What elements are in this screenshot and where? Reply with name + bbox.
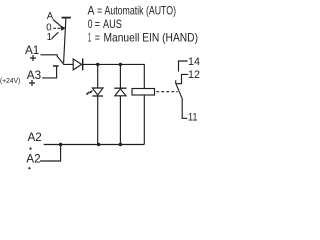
svg-text:1: 1: [47, 32, 52, 43]
svg-text:12: 12: [188, 69, 200, 81]
svg-text:A3: A3: [27, 69, 41, 82]
svg-text:A2: A2: [26, 152, 40, 165]
svg-text:A: A: [88, 4, 95, 18]
svg-text:(+24V): (+24V): [0, 76, 21, 85]
svg-text:Manuell EIN (HAND): Manuell EIN (HAND): [104, 30, 199, 44]
svg-text:1: 1: [88, 30, 91, 44]
svg-text:11: 11: [188, 112, 198, 124]
svg-text:=: =: [97, 4, 102, 18]
svg-text:A2: A2: [28, 131, 42, 144]
svg-text:A: A: [47, 11, 54, 22]
svg-text:14: 14: [188, 56, 200, 68]
svg-text:=: =: [95, 17, 100, 31]
svg-text:AUS: AUS: [103, 17, 122, 31]
svg-text:=: =: [95, 30, 100, 44]
svg-text:0: 0: [88, 17, 93, 31]
svg-text:Automatik (AUTO): Automatik (AUTO): [105, 4, 177, 18]
svg-text:A1: A1: [25, 44, 39, 57]
